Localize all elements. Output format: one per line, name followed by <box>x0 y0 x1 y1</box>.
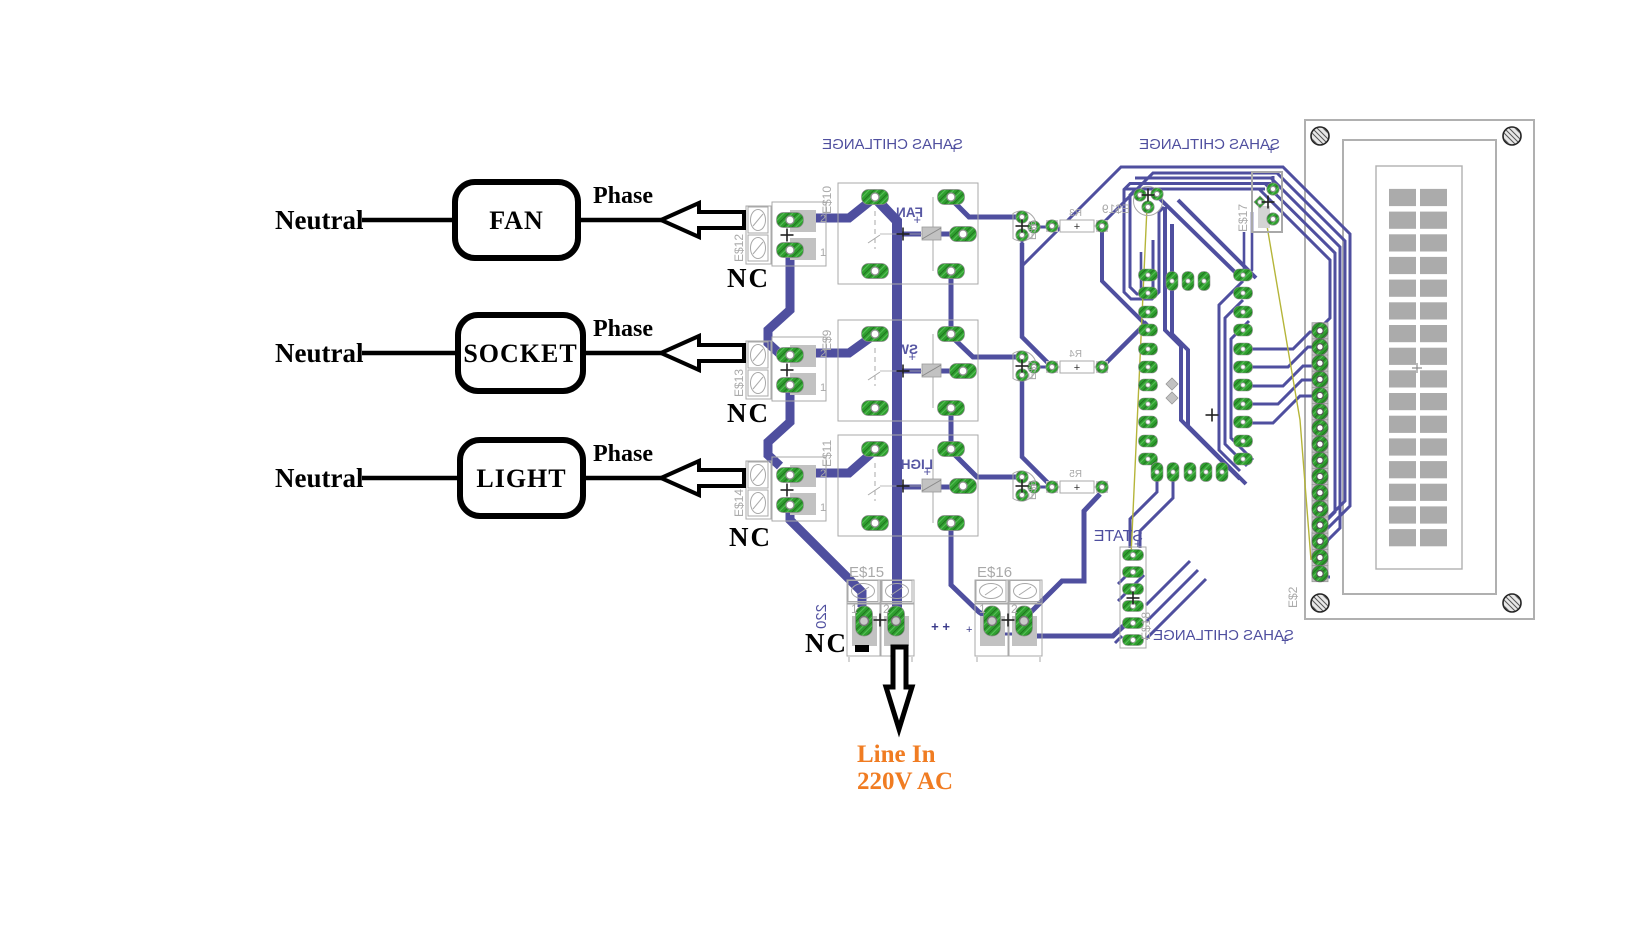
svg-text:E$2: E$2 <box>1286 586 1300 608</box>
svg-text:E$17: E$17 <box>1236 204 1250 232</box>
svg-text:1: 1 <box>820 382 826 394</box>
svg-text:Phase: Phase <box>593 441 653 467</box>
svg-text:220V AC: 220V AC <box>857 768 953 795</box>
svg-text:R5: R5 <box>1069 469 1082 480</box>
svg-text:LIGHT: LIGHT <box>476 464 566 493</box>
svg-text:E$6: E$6 <box>1027 220 1039 240</box>
svg-text:+ +: + + <box>931 619 950 634</box>
svg-text:+: + <box>923 464 931 479</box>
svg-text:E$19: E$19 <box>1102 202 1130 216</box>
svg-text:E$7: E$7 <box>1027 360 1039 380</box>
svg-text:Neutral: Neutral <box>275 338 364 368</box>
svg-text:E$9: E$9 <box>820 329 834 351</box>
svg-text:+: + <box>1267 141 1275 157</box>
svg-text:Line In: Line In <box>857 741 936 768</box>
svg-text:E$11: E$11 <box>820 440 834 467</box>
svg-text:E$14: E$14 <box>732 489 746 517</box>
svg-text:NC: NC <box>727 263 770 293</box>
svg-text:R3: R3 <box>1069 208 1082 219</box>
svg-text:FAN: FAN <box>489 206 544 235</box>
svg-text:E$16: E$16 <box>977 564 1012 581</box>
svg-text:E$18: E$18 <box>1139 612 1153 640</box>
svg-text:E$15: E$15 <box>849 564 884 581</box>
svg-text:2: 2 <box>1011 602 1018 616</box>
svg-text:E$8: E$8 <box>1027 480 1039 500</box>
svg-text:+: + <box>1134 536 1142 551</box>
svg-text:1: 1 <box>851 602 858 616</box>
svg-text:+: + <box>908 349 916 364</box>
svg-text:+: + <box>1281 632 1289 648</box>
svg-text:SAHAS CHITLANGE: SAHAS CHITLANGE <box>822 136 963 153</box>
svg-text:+: + <box>1074 362 1080 374</box>
svg-text:NC: NC <box>727 398 770 428</box>
svg-text:SAHAS CHITLANGE: SAHAS CHITLANGE <box>1153 627 1294 644</box>
svg-text:E$10: E$10 <box>820 186 834 214</box>
svg-text:SOCKET: SOCKET <box>463 339 577 368</box>
svg-text:+: + <box>1074 482 1080 494</box>
svg-text:E$12: E$12 <box>732 234 746 262</box>
svg-text:1: 1 <box>820 247 826 259</box>
svg-text:+: + <box>913 212 921 227</box>
svg-text:R4: R4 <box>1069 349 1082 360</box>
svg-text:Phase: Phase <box>593 316 653 342</box>
svg-text:SAHAS CHITLANGE: SAHAS CHITLANGE <box>1139 136 1280 153</box>
svg-text:+: + <box>1074 221 1080 233</box>
svg-text:NC: NC <box>729 522 772 552</box>
svg-text:Neutral: Neutral <box>275 463 364 493</box>
svg-text:1: 1 <box>979 602 986 616</box>
svg-text:NC: NC <box>805 628 848 658</box>
svg-text:220: 220 <box>813 604 830 629</box>
svg-text:E$13: E$13 <box>732 369 746 397</box>
svg-text:2: 2 <box>883 602 890 616</box>
svg-text:+: + <box>950 140 958 156</box>
svg-text:1: 1 <box>820 502 826 514</box>
svg-text:2: 2 <box>820 468 826 480</box>
svg-text:+: + <box>966 624 972 636</box>
svg-text:Phase: Phase <box>593 183 653 209</box>
svg-text:Neutral: Neutral <box>275 205 364 235</box>
